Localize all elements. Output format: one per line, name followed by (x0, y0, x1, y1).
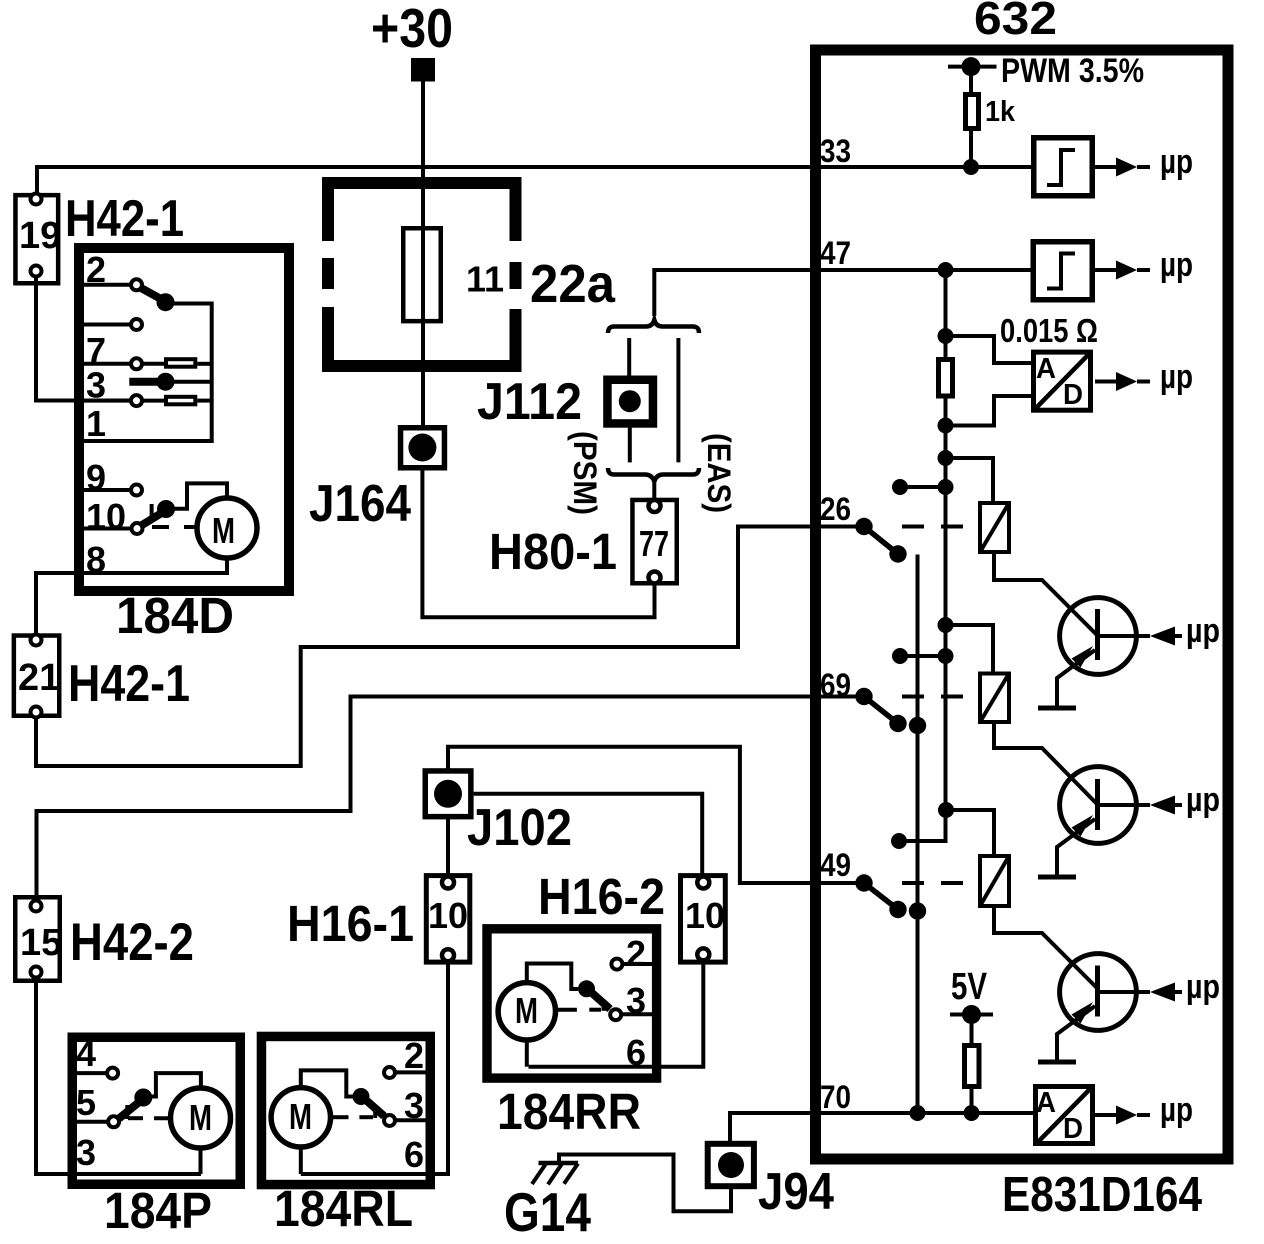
svg-text:632: 632 (974, 0, 1057, 44)
svg-text:2: 2 (404, 1035, 424, 1076)
svg-text:0.015 Ω: 0.015 Ω (1000, 312, 1098, 349)
svg-text:µp: µp (1160, 246, 1193, 284)
svg-text:µp: µp (1160, 143, 1193, 181)
svg-text:H42-2: H42-2 (70, 913, 194, 972)
svg-text:µp: µp (1186, 612, 1220, 650)
svg-text:10: 10 (428, 895, 468, 936)
svg-text:H42-1: H42-1 (68, 655, 190, 713)
svg-text:µp: µp (1160, 1091, 1193, 1129)
svg-text:5: 5 (76, 1082, 96, 1123)
svg-text:µp: µp (1186, 968, 1220, 1006)
svg-text:10: 10 (86, 496, 126, 537)
svg-text:1: 1 (86, 403, 106, 444)
svg-text:9: 9 (86, 457, 106, 498)
svg-text:D: D (1063, 379, 1083, 411)
svg-text:H16-2: H16-2 (538, 868, 665, 925)
svg-text:E831D164: E831D164 (1002, 1168, 1202, 1222)
svg-text:A: A (1036, 1087, 1056, 1119)
svg-text:J112: J112 (477, 373, 582, 431)
svg-text:1k: 1k (985, 96, 1016, 128)
svg-text:184D: 184D (116, 587, 234, 644)
svg-text:10: 10 (685, 895, 725, 936)
svg-text:J164: J164 (309, 475, 411, 533)
svg-text:184RL: 184RL (274, 1180, 413, 1237)
svg-text:69: 69 (820, 667, 851, 703)
svg-text:5V: 5V (951, 966, 988, 1008)
svg-text:77: 77 (639, 523, 669, 564)
svg-text:D: D (1063, 1113, 1083, 1145)
svg-text:(PSM): (PSM) (567, 431, 603, 515)
svg-text:15: 15 (20, 922, 62, 964)
svg-text:(EAS): (EAS) (701, 433, 737, 513)
svg-text:3: 3 (86, 365, 106, 406)
svg-text:3: 3 (626, 980, 646, 1021)
svg-text:184P: 184P (104, 1182, 212, 1239)
svg-text:184RR: 184RR (497, 1083, 641, 1140)
svg-text:6: 6 (626, 1032, 646, 1073)
svg-text:2: 2 (626, 933, 646, 974)
svg-text:+30: +30 (371, 0, 453, 59)
svg-text:22a: 22a (530, 254, 616, 314)
svg-text:47: 47 (820, 235, 851, 271)
svg-text:PWM 3.5%: PWM 3.5% (1001, 52, 1144, 90)
svg-text:2: 2 (86, 249, 106, 290)
svg-text:19: 19 (19, 215, 61, 257)
svg-text:11: 11 (466, 259, 504, 300)
svg-text:M: M (189, 1097, 212, 1138)
svg-text:49: 49 (820, 847, 851, 883)
svg-text:H16-1: H16-1 (287, 895, 414, 952)
svg-text:G14: G14 (504, 1181, 591, 1243)
svg-text:3: 3 (404, 1085, 424, 1126)
svg-text:µp: µp (1160, 358, 1193, 396)
svg-text:µp: µp (1186, 781, 1220, 819)
svg-text:21: 21 (18, 657, 60, 699)
svg-text:6: 6 (404, 1134, 424, 1175)
svg-text:M: M (212, 510, 235, 551)
svg-text:33: 33 (820, 133, 851, 169)
svg-text:H80-1: H80-1 (489, 523, 617, 580)
svg-text:3: 3 (76, 1132, 96, 1173)
svg-text:M: M (515, 990, 538, 1031)
svg-text:26: 26 (820, 491, 851, 527)
svg-text:J94: J94 (758, 1163, 834, 1221)
svg-text:70: 70 (820, 1079, 851, 1115)
svg-text:M: M (289, 1096, 312, 1137)
svg-text:8: 8 (86, 539, 106, 580)
svg-text:4: 4 (76, 1033, 96, 1074)
svg-text:J102: J102 (467, 799, 572, 857)
svg-text:H42-1: H42-1 (65, 190, 184, 248)
svg-text:A: A (1036, 353, 1056, 385)
